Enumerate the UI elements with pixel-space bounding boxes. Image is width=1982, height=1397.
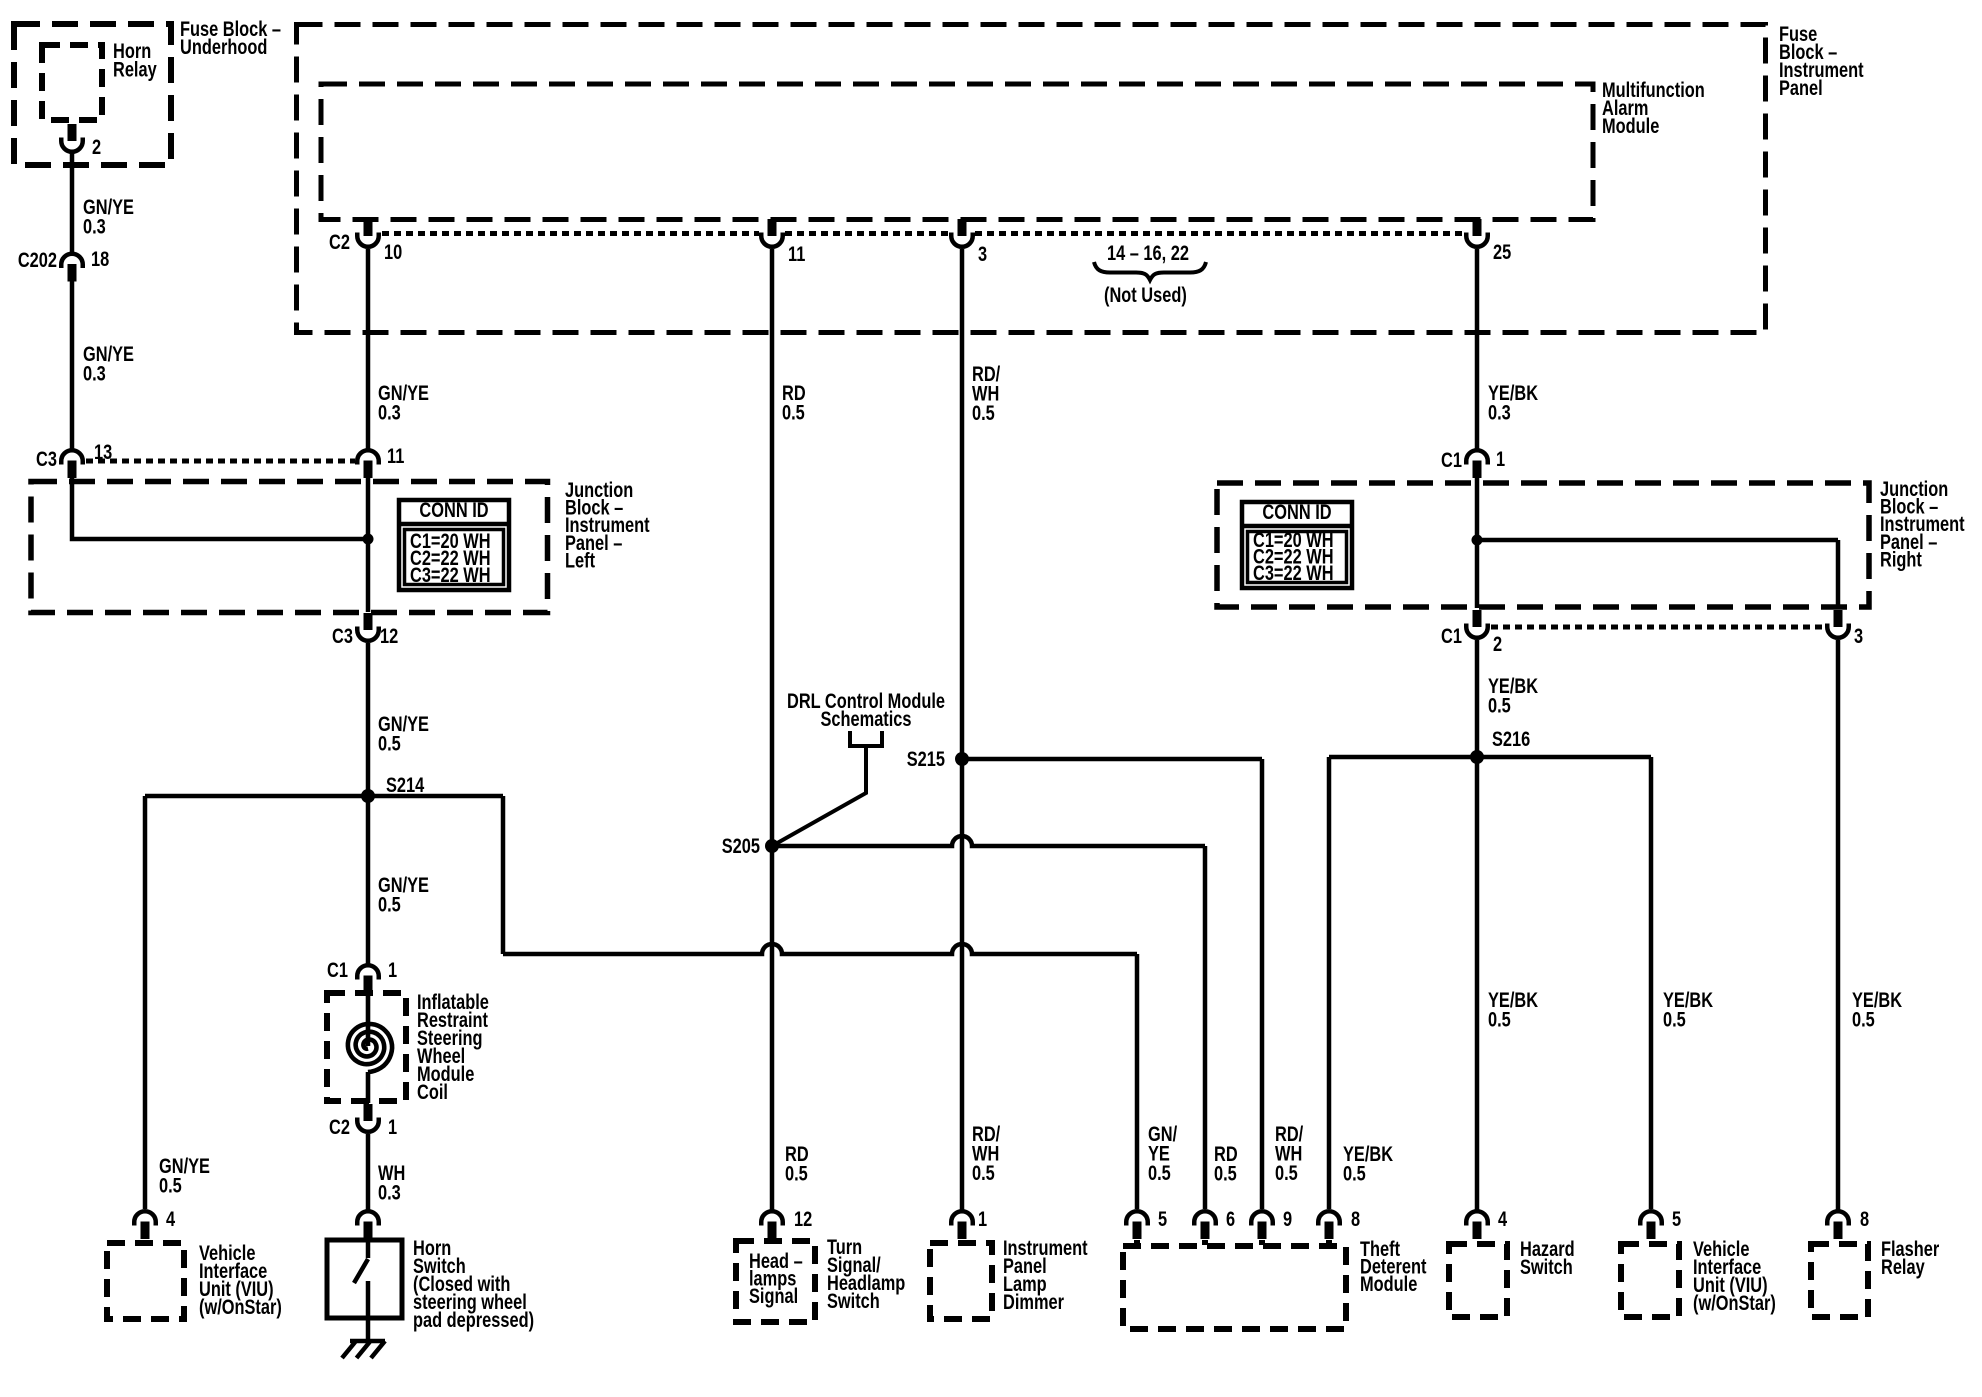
horn switch pin connector (357, 1211, 379, 1225)
svg-text:Switch: Switch (1520, 1255, 1573, 1278)
junction dot JB-right (1472, 535, 1483, 546)
wire module pin 3 down (960, 249, 965, 1211)
VIU right pin 5 connector (1640, 1211, 1662, 1225)
flasher relay box (1811, 1244, 1868, 1317)
theft pin 9 connector (1251, 1211, 1273, 1225)
svg-text:9: 9 (1283, 1207, 1292, 1230)
junction block left box (31, 482, 548, 613)
svg-text:Relay: Relay (1881, 1255, 1925, 1278)
theft deterrent module box (1123, 1246, 1346, 1329)
svg-text:0.3: 0.3 (1488, 401, 1511, 424)
svg-text:Dimmer: Dimmer (1003, 1290, 1065, 1313)
connector C3 pin 13 (61, 450, 83, 464)
wire module pin 25 down (1475, 249, 1480, 449)
hazard pin 4 connector (1466, 1211, 1488, 1225)
svg-text:0.5: 0.5 (1148, 1161, 1171, 1184)
svg-text:S214: S214 (386, 773, 425, 796)
svg-text:2: 2 (1493, 632, 1502, 655)
svg-text:C1: C1 (1441, 448, 1462, 471)
svg-text:0.5: 0.5 (1852, 1008, 1875, 1031)
svg-text:11: 11 (387, 444, 404, 467)
fuse block instrument panel box (297, 25, 1766, 333)
wire horn relay pin2 to C202 (70, 152, 75, 253)
theft pin 5 connector (1126, 1211, 1148, 1225)
wire A inside JB-left (366, 476, 371, 612)
coil spiral symbol (348, 1024, 392, 1072)
svg-text:Relay: Relay (113, 58, 157, 81)
svg-text:Panel: Panel (1779, 76, 1823, 99)
svg-text:0.5: 0.5 (159, 1174, 182, 1197)
svg-text:12: 12 (794, 1207, 812, 1230)
svg-text:5: 5 (1158, 1207, 1167, 1230)
S214 branch line (145, 796, 1137, 1209)
svg-text:0.5: 0.5 (972, 1161, 995, 1184)
svg-text:C202: C202 (18, 248, 57, 271)
svg-text:1: 1 (1496, 447, 1505, 470)
horn relay pin 2 connector (68, 124, 77, 141)
svg-text:0.3: 0.3 (378, 1181, 401, 1204)
svg-text:0.5: 0.5 (1488, 1008, 1511, 1031)
junction dot JB-left (363, 534, 374, 545)
splice S216 (1470, 750, 1484, 764)
module pin 25 connector (1473, 219, 1482, 236)
svg-text:Left: Left (565, 548, 596, 571)
connector C1 pin 1 (JB right) (1466, 450, 1488, 464)
VIU left box (107, 1243, 184, 1319)
svg-text:C2: C2 (329, 1115, 350, 1138)
connector C1 pin 1 (coil) (357, 965, 379, 979)
not used brace (1094, 262, 1206, 280)
wire module pin10 down to pin 11 (366, 249, 371, 449)
svg-text:25: 25 (1493, 240, 1511, 263)
connector pin 3 (JB right) (1834, 610, 1843, 627)
svg-text:C1: C1 (327, 958, 348, 981)
svg-text:Module: Module (1360, 1272, 1417, 1295)
theft pin 8 connector (1318, 1211, 1340, 1225)
connector C202 pin 18 (61, 254, 83, 268)
module pin 3 connector (958, 219, 967, 236)
wire module pin 11 down (770, 249, 775, 1211)
dimmer pin 1 connector (951, 1211, 973, 1225)
svg-text:C1: C1 (1441, 624, 1462, 647)
svg-text:6: 6 (1226, 1207, 1235, 1230)
svg-text:S215: S215 (907, 747, 945, 770)
svg-text:4: 4 (1498, 1207, 1508, 1230)
conn id table left (399, 500, 509, 590)
wire horn switch to ground (366, 1318, 371, 1341)
svg-text:5: 5 (1672, 1207, 1681, 1230)
hazard switch box (1449, 1244, 1507, 1317)
svg-text:3: 3 (978, 242, 987, 265)
svg-text:8: 8 (1351, 1207, 1360, 1230)
headlamps pin 12 connector (761, 1211, 783, 1225)
junction block right box (1217, 483, 1869, 607)
svg-text:Schematics: Schematics (820, 707, 911, 730)
svg-text:Signal: Signal (749, 1284, 798, 1307)
VIU right box (1621, 1244, 1679, 1317)
splice S215 (955, 752, 969, 766)
theft pin stubs extension (1137, 1240, 1329, 1245)
JB-right branch to pin 3 (1477, 540, 1838, 608)
wire coil to horn switch (366, 1134, 371, 1211)
svg-text:0.5: 0.5 (1214, 1162, 1237, 1185)
headlamps signal box (736, 1241, 815, 1322)
svg-text:18: 18 (91, 247, 109, 270)
dotted line C3-13 to 11 (86, 459, 355, 464)
conn id table right (1242, 502, 1352, 588)
connector C3 pin 12 (364, 613, 373, 630)
svg-text:Right: Right (1880, 547, 1922, 570)
svg-text:CONN ID: CONN ID (419, 498, 488, 521)
svg-text:1: 1 (388, 1115, 397, 1138)
svg-text:S216: S216 (1492, 727, 1530, 750)
wire S214 to coil C1 (366, 796, 371, 964)
connector pin 11 junction block (357, 450, 379, 464)
svg-text:Module: Module (1602, 114, 1659, 137)
svg-text:C3: C3 (36, 447, 57, 470)
S216 branch line (1329, 757, 1651, 1209)
svg-text:S205: S205 (722, 834, 760, 857)
svg-text:0.5: 0.5 (1488, 694, 1511, 717)
svg-text:0.3: 0.3 (378, 401, 401, 424)
svg-text:1: 1 (388, 958, 397, 981)
svg-text:pad depressed): pad depressed) (413, 1308, 534, 1331)
svg-text:0.5: 0.5 (1343, 1162, 1366, 1185)
svg-text:14 – 16, 22: 14 – 16, 22 (1107, 241, 1189, 264)
svg-text:C2: C2 (329, 230, 350, 253)
svg-text:C3=22 WH: C3=22 WH (410, 563, 491, 586)
svg-text:Coil: Coil (417, 1080, 448, 1103)
splice S205 (765, 839, 779, 853)
connector C2 pin 1 (coil bottom) (364, 1104, 373, 1121)
svg-text:C3=22 WH: C3=22 WH (1253, 561, 1334, 584)
svg-text:0.5: 0.5 (378, 893, 401, 916)
wire inside JB-left (72, 476, 368, 539)
wire S216 to hazard switch (1475, 757, 1480, 1211)
fuse block underhood box (14, 24, 171, 165)
wire pin3 JB-right to flasher (1836, 640, 1841, 1211)
DRL pointer line (772, 746, 866, 846)
svg-text:(w/OnStar): (w/OnStar) (199, 1295, 282, 1318)
svg-text:C3: C3 (332, 624, 353, 647)
horn switch box (327, 1240, 402, 1318)
DRL bracket (850, 731, 882, 746)
svg-text:(w/OnStar): (w/OnStar) (1693, 1291, 1776, 1314)
svg-text:0.3: 0.3 (83, 362, 106, 385)
svg-text:1: 1 (978, 1207, 987, 1230)
svg-text:2: 2 (92, 135, 101, 158)
S215 branch line (962, 759, 1262, 1209)
module pin C2-10 connector (364, 219, 373, 236)
dotted line C1-2 to 3 (1491, 625, 1824, 630)
svg-text:Underhood: Underhood (180, 35, 267, 58)
multifunction alarm module box (321, 84, 1593, 220)
VIU left pin 4 connector (134, 1211, 156, 1225)
horn relay box (42, 45, 102, 120)
svg-text:0.5: 0.5 (1275, 1161, 1298, 1184)
S205 branch line (772, 836, 1205, 1209)
connector C1 pin 2 (JB right) (1473, 610, 1482, 627)
horn switch symbol (354, 1242, 368, 1320)
theft pin 6 connector (1194, 1211, 1216, 1225)
svg-text:11: 11 (788, 242, 805, 265)
wire D inside JB-right (1475, 476, 1480, 608)
wire C202 to C3-13 (70, 281, 75, 449)
splice S214 (361, 789, 375, 803)
module connector dotted line (382, 231, 1464, 236)
svg-text:8: 8 (1860, 1207, 1869, 1230)
svg-text:Switch: Switch (827, 1289, 880, 1312)
svg-text:0.5: 0.5 (378, 732, 401, 755)
svg-text:CONN ID: CONN ID (1262, 500, 1331, 523)
svg-text:0.5: 0.5 (1663, 1008, 1686, 1031)
flasher pin 8 connector (1827, 1211, 1849, 1225)
ground symbol (342, 1341, 385, 1358)
svg-text:4: 4 (166, 1207, 176, 1230)
module pin 11 connector (768, 219, 777, 236)
svg-text:0.5: 0.5 (782, 401, 805, 424)
inflatable restraint coil box (327, 993, 406, 1101)
svg-text:10: 10 (384, 240, 402, 263)
svg-text:(Not Used): (Not Used) (1104, 283, 1187, 306)
svg-text:0.3: 0.3 (83, 215, 106, 238)
svg-text:0.5: 0.5 (785, 1162, 808, 1185)
svg-text:12: 12 (380, 624, 398, 647)
svg-text:3: 3 (1854, 624, 1863, 647)
wire C1-2 to S216 (1475, 640, 1480, 759)
svg-text:0.5: 0.5 (972, 401, 995, 424)
instrument panel lamp dimmer box (930, 1243, 992, 1319)
wire C3-12 to S214 (366, 643, 371, 798)
